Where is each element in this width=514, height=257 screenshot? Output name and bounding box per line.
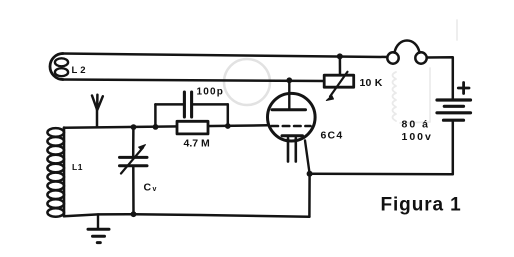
svg-text:v: v	[153, 186, 157, 193]
svg-text:L2: L2	[72, 65, 89, 76]
wire L2 bottom line to pot	[62, 80, 325, 82]
ground	[88, 214, 109, 242]
svg-text:80 á: 80 á	[402, 119, 430, 131]
tube grid dashed	[272, 125, 311, 128]
tube plate bar	[272, 108, 306, 111]
antenna	[92, 95, 103, 127]
svg-text:10 K: 10 K	[360, 77, 383, 89]
ghost mark faint circle	[224, 59, 270, 105]
svg-text:100v: 100v	[402, 131, 433, 143]
junction dot pot top node	[337, 53, 343, 59]
wire L2 top line to phones	[62, 54, 388, 58]
ghost mark faint coil	[393, 72, 397, 121]
junction dot RC left	[153, 124, 159, 130]
battery B1	[437, 100, 471, 120]
svg-text:Figura 1: Figura 1	[381, 194, 462, 215]
wire RC loop left vertical	[154, 104, 157, 127]
coil L2	[50, 54, 68, 80]
tube heater prongs	[288, 138, 296, 162]
variable capacitor Cv	[120, 127, 148, 214]
wire phones to battery top	[427, 57, 453, 98]
wire cathode lead diagonal	[305, 141, 310, 174]
junction dot cathode node	[307, 171, 313, 177]
ghost mark faint lines	[400, 20, 457, 123]
plus sign	[458, 83, 469, 94]
svg-text:4.7 M: 4.7 M	[184, 138, 211, 150]
wire battery bottom to cathode node	[310, 122, 453, 175]
tube cathode bar	[282, 134, 303, 137]
junction dot RC right	[225, 123, 231, 129]
junction dot plate node	[286, 77, 292, 83]
tube 6C4 envelope	[268, 93, 316, 141]
junction dot Cv top	[131, 124, 137, 130]
svg-text:L1: L1	[72, 162, 83, 172]
svg-text:6C4: 6C4	[321, 130, 344, 142]
wire cap branch right	[193, 103, 228, 106]
wire bottom rail	[64, 214, 309, 217]
potentiometer 10K	[324, 72, 354, 101]
wire plate lead	[288, 80, 290, 108]
wire cap branch left	[155, 103, 183, 106]
svg-text:C: C	[144, 182, 152, 194]
wire RC loop right vertical	[227, 104, 230, 126]
wire pot top lead	[339, 56, 342, 75]
wire grid line	[64, 125, 268, 128]
coil L1	[47, 128, 64, 217]
junction dot Cv bottom	[131, 211, 137, 217]
wire cathode node down	[308, 174, 311, 217]
resistor 4.7M	[177, 121, 208, 134]
headphones	[387, 41, 426, 64]
svg-text:100p: 100p	[197, 86, 225, 97]
capacitor 100p	[184, 92, 191, 117]
